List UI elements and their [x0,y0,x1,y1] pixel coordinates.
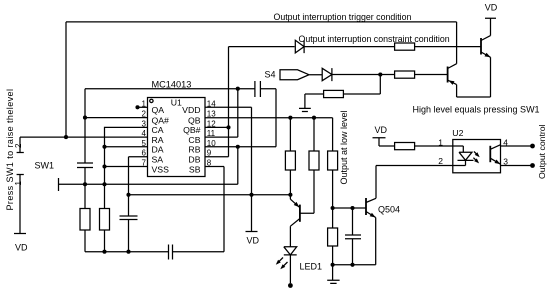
transistor NPN (high-side) [480,38,482,55]
wire: pin2 column up to S4 cap row [85,89,238,118]
svg-text:SA: SA [152,155,164,165]
IC U1 pin 1 stub QA with terminal dot [138,106,148,108]
svg-text:VD: VD [15,243,28,253]
wire: U2 pin 4 output [501,145,533,147]
svg-text:U1: U1 [171,98,182,108]
resistor (opto series) [395,143,415,150]
LED LED1 [284,247,297,283]
IC U1 pin numbers right [207,99,216,167]
resistor (QA# column) [80,209,90,231]
wire L1: SW1 blade rail [59,89,238,191]
svg-text:RA: RA [152,135,164,145]
optocoupler U2 box [453,140,501,173]
svg-text:1: 1 [438,138,443,148]
wire: pin 5 DA stub [105,146,148,148]
svg-text:RB: RB [188,145,200,155]
svg-text:LED1: LED1 [300,262,323,272]
wire: bottom-left ground rail [85,251,224,253]
resistor (S4 row) [395,71,415,78]
svg-text:4: 4 [142,129,147,138]
resistor (CA column) [100,209,110,231]
capacitor (SA column) [120,216,138,252]
svg-text:7: 7 [142,159,147,168]
svg-text:2: 2 [438,156,443,166]
svg-text:13: 13 [207,110,216,119]
resistor (constraint row) [395,43,415,50]
capacitor (S4 coupling) [238,81,276,97]
wire: pin 8 SB column down to bottom rail [205,167,224,252]
svg-text:Q504: Q504 [378,204,400,214]
IC U1 pin numbers left [142,99,147,167]
svg-text:Output interruption constraint: Output interruption constraint condition [299,34,450,44]
svg-text:High level equals pressing SW1: High level equals pressing SW1 [413,105,540,115]
power VD (bottom-left) [14,233,26,235]
wire: pin 6 SA column [129,157,148,216]
svg-text:Press SW1 to raise thelevel: Press SW1 to raise thelevel [5,89,15,211]
LED (inside U2) [453,146,474,166]
svg-text:Output interruption trigger co: Output interruption trigger condition [274,12,412,22]
wire: U2 pin 3 output [501,165,533,167]
wire L2: VD distribution rail [129,194,291,196]
phototransistor (inside U2) [489,146,491,162]
svg-text:CA: CA [152,125,164,135]
svg-text:Output at low level: Output at low level [339,110,349,184]
svg-text:1: 1 [142,99,147,108]
diode (constraint row) [295,40,394,53]
transistor Q504 NPN [365,198,367,215]
svg-text:9: 9 [207,149,212,158]
resistor (Q504 base lower) [328,228,338,246]
svg-text:6: 6 [142,149,147,158]
power VD (top-right) [485,18,496,35]
svg-text:SW1: SW1 [35,161,55,171]
ground (Q504) [327,265,339,284]
svg-text:U2: U2 [452,128,463,138]
svg-text:VSS: VSS [152,164,170,174]
wire: U2 pin2 net [376,165,453,167]
svg-text:1: 1 [14,181,23,186]
svg-text:VD: VD [375,125,388,135]
wire: pin 12 QB# and pin 11 CB lines [205,127,238,137]
power VD (opto) [373,138,395,146]
svg-text:14: 14 [207,99,216,108]
svg-text:5: 5 [142,139,147,148]
svg-text:VD: VD [485,2,498,12]
svg-text:SB: SB [189,164,201,174]
power VD tap below L2 [246,195,258,232]
wire: Q504 base row [333,207,366,209]
capacitor (series in bottom rail) [169,245,173,260]
capacitor (QA# column) [77,116,93,185]
svg-text:DB: DB [188,155,200,165]
svg-text:S4: S4 [265,70,276,80]
svg-text:2: 2 [14,143,23,148]
wire: pin 13 QB resistor rail [205,118,333,151]
signal tag S4 [280,70,322,80]
transistor PNP (trigger driver) [447,67,449,83]
svg-text:QA: QA [152,105,165,115]
wire: RA line to SW1 [20,137,148,152]
IC U1 box [148,98,206,177]
ground (S4 pulldown) [299,94,311,112]
light arrows (inside U2) [473,152,478,163]
wire: Q504 emitter rail [333,264,376,266]
switch SW1 [17,153,24,234]
wire: pin 7 VSS stub [105,166,148,168]
svg-text:11: 11 [207,129,216,138]
wire: output interruption trigger net (top rail) [66,22,457,137]
transistor PNP (LED driver) [299,205,301,222]
svg-text:QA#: QA# [152,115,170,125]
svg-text:MC14013: MC14013 [152,79,192,89]
svg-text:VD: VD [247,236,260,246]
svg-text:12: 12 [207,119,216,128]
wire: emitters tie rail [457,96,491,98]
svg-text:CB: CB [188,135,200,145]
resistor (QB rail C) [328,151,338,170]
wire: pin 2 QA# line [85,117,148,119]
svg-text:Output control: Output control [537,124,547,179]
svg-text:8: 8 [207,159,212,168]
label U2 pin numbers [438,138,508,167]
svg-text:QB#: QB# [183,125,201,135]
svg-text:10: 10 [207,139,216,148]
wire: pin 10 RB line to S4 cap [205,89,276,147]
svg-text:VDD: VDD [182,105,200,115]
IC U1 pin labels left [152,105,170,174]
wire: pin 14 VDD down to L2 [205,107,252,195]
capacitor (Q504 base) [345,208,361,265]
resistor (pull-down to ground) [324,90,344,97]
svg-text:QB: QB [188,115,201,125]
svg-text:DA: DA [152,145,164,155]
resistor (QB rail B) [309,151,319,170]
diode (S4 row) [322,68,394,81]
svg-text:3: 3 [142,119,147,128]
resistor (QB rail A) [285,151,295,170]
IC U1 pin labels right [182,105,201,174]
node: junction top-left vertical on RA line [64,135,68,139]
wire: constraint condition vertical [205,47,295,157]
wire: pin 3 CA to left column [105,127,148,208]
svg-text:2: 2 [142,110,147,119]
